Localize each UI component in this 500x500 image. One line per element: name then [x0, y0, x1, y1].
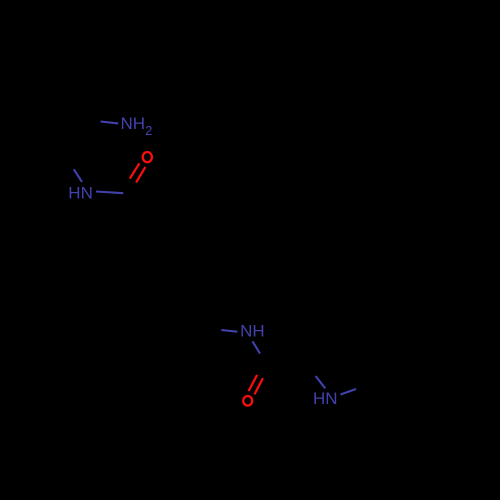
- bond C-N(H2) half, amine top-left: [101, 122, 119, 124]
- double bond C=O half line 2, top carbonyl: [136, 167, 145, 183]
- bond C-N half, pyrrolidine N upper bond: [316, 376, 326, 388]
- bond N-C(=O) half, bottom amide: [253, 341, 261, 353]
- svg-text:HN: HN: [313, 389, 338, 408]
- svg-text:HN: HN: [68, 184, 93, 203]
- svg-text:NH: NH: [240, 322, 265, 341]
- atom label O (bottom carbonyl oxygen): [243, 396, 252, 406]
- double bond C=O half line 2, bottom carbonyl: [255, 378, 263, 394]
- bond C-N half, amide N bottom-middle: [221, 330, 237, 332]
- bond N-C(=O) half, amide top-left: [96, 192, 123, 194]
- atom label O (top carbonyl oxygen): [143, 152, 152, 162]
- double bond C=O half line 1, top carbonyl: [130, 163, 140, 178]
- bond C-N(H) half, amide N top-left: [74, 169, 82, 182]
- bond N-C half, pyrrolidine N right bond: [341, 389, 357, 395]
- double bond C=O half line 1, bottom carbonyl: [249, 375, 258, 391]
